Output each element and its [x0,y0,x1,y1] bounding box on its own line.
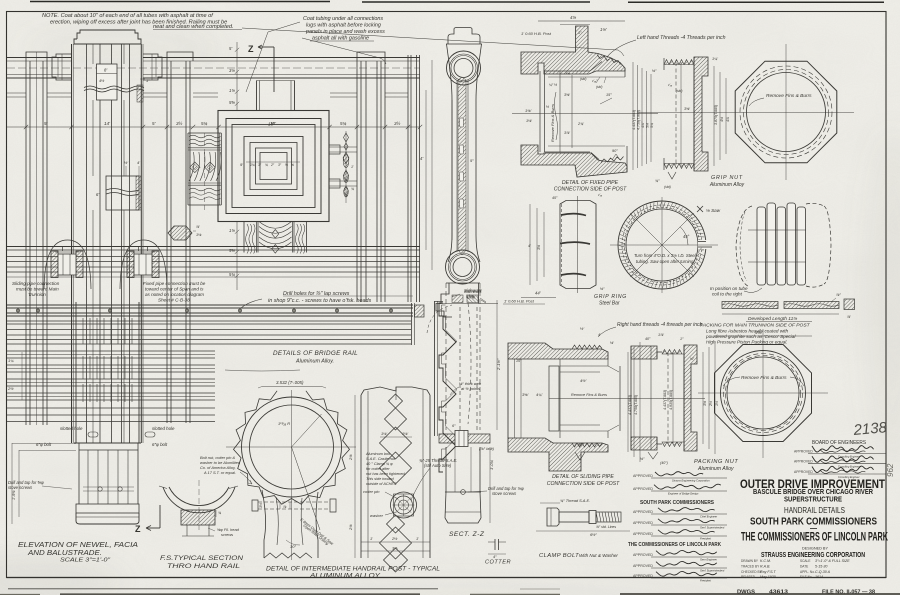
svg-text:Aluminum Alloy.: Aluminum Alloy. [295,359,334,365]
svg-text:Turn from 4″O.D. x 3⅛ I.D. Ste: Turn from 4″O.D. x 3⅛ I.D. Steel [634,253,697,258]
intermediate post: elevation right [361,395,430,558]
svg-text:toward center of Span and is: toward center of Span and is [145,287,204,292]
newel top inner box [97,64,118,100]
svg-text:⅛″: ⅛″ [652,69,657,73]
svg-text:6″φ bolt: 6″φ bolt [152,442,168,447]
svg-text:½': ½' [580,326,584,331]
svg-text:1′-9⅝: 1′-9⅝ [12,490,16,500]
deck band 3 [7,350,215,352]
svg-text:5″: 5″ [470,158,474,163]
sliding connection flange top [508,343,608,359]
svg-text:Aluminum bolt: Aluminum bolt [365,452,391,456]
svg-text:APPROVED: APPROVED [794,460,813,464]
sect Z-Z: clamp arm [439,434,490,443]
fixed connection: right dim stack [632,62,634,170]
svg-text:40 ° Clamp ¾ φ: 40 ° Clamp ¾ φ [366,462,393,466]
elevation: top rail [7,57,71,59]
aged paper stains [0,0,1,1]
svg-text:2½: 2½ [391,536,398,541]
svg-text:REVISED: REVISED [741,575,756,579]
svg-text:⅛″: ⅛″ [640,457,645,461]
svg-text:Engineer of Bridge Design: Engineer of Bridge Design [668,492,699,496]
svg-text:3½: 3½ [394,120,401,126]
svg-text:THE COMMISSIONERS OF LINCOLN P: THE COMMISSIONERS OF LINCOLN PARK [741,532,888,544]
svg-text:SCALE: SCALE [800,559,810,563]
svg-text:4.437(T.003): 4.437(T.003) [632,110,636,130]
svg-text:1¹¹⁄₁₆ R: 1¹¹⁄₁₆ R [278,421,290,426]
elevation: post 2 (x 170-190) [167,52,193,61]
svg-text:60°: 60° [578,443,584,447]
svg-text:4⅛: 4⅛ [720,117,724,122]
sliding connection inner bore [549,366,559,431]
svg-text:APPROVED: APPROVED [794,450,813,454]
svg-text:5': 5' [229,46,232,51]
newel hub left lug [52,54,72,80]
svg-text:coil to the right: coil to the right [712,292,743,297]
svg-text:Coat tubing under all connecti: Coat tubing under all connections [303,16,383,22]
svg-text:Right hand threads -4 threads: Right hand threads -4 threads per inch [617,322,703,328]
svg-text:APPROVED: APPROVED [633,553,653,557]
svg-text:4⅞″: 4⅞″ [641,121,645,128]
svg-text:lugs with asphalt before locki: lugs with asphalt before locking [306,23,381,29]
svg-text:for cotter after: for cotter after [366,467,390,471]
svg-text:3⅝: 3⅝ [392,546,398,551]
svg-text:THRO HAND RAIL: THRO HAND RAIL [167,563,240,570]
gear circle centerlines [226,446,356,448]
svg-text:With Nut & Washer: With Nut & Washer [579,553,618,558]
svg-text:must be toward Main: must be toward Main [16,287,59,292]
svg-text:1614: 1614 [815,575,823,579]
svg-text:President: President [700,579,711,583]
svg-text:High Pressure Piston Packing o: High Pressure Piston Packing or equal. [706,340,788,345]
svg-text:3″=1'-0″ & FULL SIZE: 3″=1'-0″ & FULL SIZE [815,559,850,563]
svg-text:Gen'l Superintendent: Gen'l Superintendent [700,569,725,573]
svg-text:½: ½ [546,105,549,109]
newel shaft through deck [75,302,77,443]
svg-text:powdered graphite such as ‘Ces: powdered graphite such as ‘Cesco’ Specia… [705,334,796,339]
svg-text:CLAMP BOLT: CLAMP BOLT [539,553,579,559]
svg-text:⅝: ⅝ [291,163,294,167]
svg-text:DETAIL OF FIXED PIPE: DETAIL OF FIXED PIPE [562,180,619,186]
svg-text:6': 6' [96,192,99,197]
svg-text:90°: 90° [612,149,618,153]
svg-text:GRIP NUT: GRIP NUT [711,175,743,181]
svg-text:Remove Fins & Burrs: Remove Fins & Burrs [741,375,787,381]
baluster: top cap [448,28,480,45]
svg-text:¾: ¾ [265,163,268,167]
svg-text:1⅛': 1⅛' [600,27,607,32]
svg-text:¼″ ½: ¼″ ½ [549,83,557,87]
svg-text:¾″ Thread S.A.E.: ¾″ Thread S.A.E. [560,498,590,503]
svg-text:Z: Z [248,44,254,54]
svg-text:cotter pin: cotter pin [363,489,380,494]
svg-text:in shop 9"c.c. - screws to ha: in shop 9"c.c. - screws to have o’fsk. h… [268,298,371,304]
diagonal drill note [292,447,321,530]
grip ring side view [560,201,596,289]
svg-text:1⅜: 1⅜ [229,228,235,233]
svg-text:1″: 1″ [146,78,150,83]
svg-text:15°: 15° [606,93,612,97]
svg-text:AND BALUSTRADE.: AND BALUSTRADE. [27,548,102,557]
svg-text:FILE No.: FILE No. [800,575,813,579]
svg-text:CONNECTION SIDE OF POST: CONNECTION SIDE OF POST [554,187,627,193]
svg-text:Aluminum Alloy: Aluminum Alloy [709,182,745,188]
svg-text:1¼': 1¼' [712,57,718,61]
cotter [494,539,496,550]
svg-text:3⅛: 3⅛ [229,68,235,73]
svg-text:STRAUSS ENGINEERING CORPORATIO: STRAUSS ENGINEERING CORPORATION [761,550,865,559]
svg-text:APPL. No.: APPL. No. [800,570,815,574]
sliding coupling [44,240,91,289]
svg-text:15°: 15° [516,359,522,363]
svg-text:½': ½' [124,160,128,165]
fixed connection: top threads [597,55,621,65]
sect Z-Z: post outline [445,283,447,430]
svg-text:1': 1' [370,536,373,541]
octagon nut top right [735,61,837,163]
elevation: post 3 (x 360-382) [357,52,385,61]
svg-text:2½: 2½ [709,401,713,407]
svg-text:4⅞: 4⅞ [570,15,576,20]
svg-text:SOUTH PARK COMMISSIONERS: SOUTH PARK COMMISSIONERS [750,516,877,528]
svg-text:2′-1½″: 2′-1½″ [496,358,501,371]
svg-text:stove screws: stove screws [492,491,517,496]
svg-text:SUPERSTRUCTURE: SUPERSTRUCTURE [784,497,842,504]
svg-text:(⅞″ bolt): (⅞″ bolt) [479,446,495,451]
baluster: bottom eye [446,250,480,284]
plan: vertical dim column x=237 [236,42,238,110]
developed length dim [722,313,839,315]
svg-text:APPROVED: APPROVED [794,470,813,474]
svg-text:1⅛': 1⅛' [381,431,387,436]
svg-text:3⅞': 3⅞' [564,131,570,135]
svg-text:Trunnion: Trunnion [28,292,46,297]
hex lug on post2 [168,226,192,240]
svg-text:THE COMMISSIONERS OF LINCOLN P: THE COMMISSIONERS OF LINCOLN PARK [628,542,721,548]
svg-text:⅛': ⅛' [610,341,614,345]
plan: nested squares [218,111,329,222]
svg-text:Strauss Engineering Corporatio: Strauss Engineering Corporation [672,479,710,483]
svg-text:⅝: ⅝ [285,163,288,167]
svg-text:9': 9' [240,162,243,167]
svg-text:washer: washer [370,513,384,518]
svg-text:4': 4' [420,156,423,161]
sliding connection flange bottom [508,438,608,471]
svg-text:neat and clean when completed.: neat and clean when completed. [153,24,234,30]
elevation: newel column [74,30,141,44]
svg-text:3⅝': 3⅝' [684,107,690,111]
svg-text:3.875(T.005): 3.875(T.005) [714,105,718,125]
svg-text:APPROVED: APPROVED [633,532,653,536]
svg-text:962: 962 [886,463,895,477]
diamonds column [389,394,403,408]
intermediate post: neck below circle [262,490,266,558]
svg-text:6½″: 6½″ [590,532,597,537]
svg-text:asphalt all with gasoline: asphalt all with gasoline [312,36,369,42]
svg-text:SECT. Z-Z: SECT. Z-Z [449,531,485,538]
svg-text:S.A.E. Castle nut: S.A.E. Castle nut [366,457,396,461]
svg-text:1' 0.60 H.B. Post: 1' 0.60 H.B. Post [504,299,535,304]
svg-text:(std): (std) [676,89,682,93]
saw cut label [697,206,703,212]
svg-text:Genr Engineer: Genr Engineer [700,558,717,562]
svg-text:1⅞': 1⅞' [658,333,664,337]
svg-text:5⅛: 5⅛ [646,123,650,128]
svg-text:¾″: ¾″ [655,179,660,183]
svg-text:Chief Engineer: Chief Engineer [700,515,717,519]
svg-text:4': 4' [137,160,140,165]
svg-text:1': 1' [416,536,419,541]
svg-text:Z: Z [135,524,141,534]
svg-text:outside of ACHES: outside of ACHES [366,482,397,486]
svg-text:Consulting Engineer: Consulting Engineer [838,455,860,458]
svg-text:4⅞: 4⅞ [726,117,730,122]
grip ring dims left [529,204,531,285]
svg-text:Gen'l Superintendent: Gen'l Superintendent [700,526,725,530]
svg-text:5¾: 5¾ [229,272,235,277]
45 deg arc label [680,227,688,245]
svg-text:3½: 3½ [176,120,183,126]
octagon2 top dim [714,335,812,337]
svg-text:2⅛: 2⅛ [348,524,353,531]
svg-text:(std Auto Size): (std Auto Size) [424,463,452,468]
svg-text:2½: 2½ [7,386,14,391]
svg-text:at ½ points: at ½ points [461,386,480,391]
svg-text:slotted hole: slotted hole [152,426,175,431]
svg-text:5-15-30: 5-15-30 [815,564,827,568]
svg-text:In position on tube: In position on tube [710,286,748,291]
packing coil on tube [736,206,752,287]
plan: spindle ornament right [345,131,347,203]
sect Z-Z: zigzag wall [439,303,456,472]
svg-text:⅛ Saw: ⅛ Saw [706,208,721,213]
plan: top tab [256,81,258,111]
svg-text:Remove Fins & Burrs: Remove Fins & Burrs [766,93,812,99]
svg-text:45°: 45° [683,234,690,239]
plan: right tabs [329,145,340,154]
svg-text:3⅝: 3⅝ [703,401,707,406]
svg-text:APPROVED: APPROVED [633,487,653,491]
svg-text:Ray F.S.T: Ray F.S.T [760,570,777,574]
svg-text:45°: 45° [552,196,558,200]
fixed connection: top dims [538,20,625,22]
svg-text:APPROVED: APPROVED [633,521,653,525]
svg-text:APPROVED: APPROVED [633,510,653,514]
svg-text:3⅝': 3⅝' [564,93,570,97]
svg-text:1': 1' [351,165,354,169]
svg-text:1⅜: 1⅜ [229,88,235,93]
svg-text:stove screws: stove screws [8,485,33,490]
svg-text:tubing. Saw open after turning: tubing. Saw open after turning [636,259,694,264]
svg-text:1¼: 1¼ [8,358,14,363]
svg-text:3⅝: 3⅝ [537,245,541,250]
svg-text:COTTER: COTTER [485,560,511,566]
packing nut body [631,346,657,359]
plan: bottom ornament band [243,222,245,253]
svg-text:4¼': 4¼' [536,392,543,397]
svg-text:2138: 2138 [852,419,888,439]
base screws [98,487,102,491]
svg-text:⅞': ⅞' [847,315,851,319]
svg-text:6″φ bolt: 6″φ bolt [36,442,52,447]
svg-text:4.437(T.003): 4.437(T.003) [628,395,632,415]
fixed connection: bore tube [539,71,541,152]
svg-text:Line: Line [466,294,475,299]
svg-text:4.935(T.005): 4.935(T.005) [669,390,673,410]
svg-text:APPROVED: APPROVED [633,474,653,478]
svg-text:SCALE 3"=1'-0": SCALE 3"=1'-0" [60,558,111,564]
svg-text:3½: 3½ [259,503,263,508]
svg-text:⅞″: ⅞″ [836,292,841,297]
svg-text:Developed Length 11⅞: Developed Length 11⅞ [748,316,797,322]
svg-text:nut has been tightened.: nut has been tightened. [366,472,406,476]
deck band 1 [7,304,413,306]
svg-text:May 1930: May 1930 [760,575,776,579]
svg-text:(40°): (40°) [660,461,668,465]
svg-text:¹⁄₁₆: ¹⁄₁₆ [598,193,603,197]
svg-text:BASCULE BRIDGE OVER CHICAGO: BASCULE BRIDGE OVER CHICAGO RIVER [753,489,873,496]
svg-text:Remove Fins & Burrs: Remove Fins & Burrs [571,393,607,397]
svg-text:¹⁄₁₆: ¹⁄₁₆ [668,83,673,87]
svg-text:14': 14' [104,121,110,126]
svg-text:NOTE. Coat about 10" of each: NOTE. Coat about 10" of each end of all … [42,13,214,19]
svg-text:4': 4' [598,332,601,337]
svg-text:5⅝: 5⅝ [229,100,235,105]
svg-text:18': 18' [268,122,274,127]
svg-text:3⅝': 3⅝' [522,392,529,397]
svg-text:Sidewalk: Sidewalk [464,288,482,293]
svg-text:5¾: 5¾ [201,121,208,126]
svg-text:40°: 40° [645,337,651,341]
fixed connection body: top flange hatched [521,26,625,74]
svg-text:DRAWN BY: DRAWN BY [741,559,759,563]
grip nut: body [664,60,694,65]
svg-text:5¾: 5¾ [340,121,347,126]
svg-text:1⅛: 1⅛ [196,233,202,237]
svg-text:Steel Bar: Steel Bar [599,301,620,307]
svg-text:44': 44' [535,291,541,296]
svg-text:CONNECTION SIDE OF POST: CONNECTION SIDE OF POST [547,481,620,487]
elevation: pipe lines [7,256,420,258]
svg-text:Long fibre Asbestos heavily: Long fibre Asbestos heavily coated with [706,329,789,334]
svg-text:4.750(T.005): 4.750(T.005) [637,110,641,130]
svg-text:1' 0.60 H.B. Post: 1' 0.60 H.B. Post [521,31,552,36]
svg-text:1¾: 1¾ [250,163,255,167]
baluster: base bracket [446,282,480,284]
post dims [380,436,412,438]
developed strips [722,302,778,309]
svg-text:HANDRAIL DETAILS: HANDRAIL DETAILS [784,506,845,515]
svg-text:Left hand Threads -4 Threads p: Left hand Threads -4 Threads per inch [637,35,726,41]
svg-text:5': 5' [152,121,156,126]
svg-text:(std): (std) [596,85,602,89]
svg-text:PACKING NUT: PACKING NUT [694,459,738,465]
elevation: lower rail [7,246,420,248]
baluster: top eye [447,51,481,85]
octagon nut lower right [715,345,812,442]
svg-text:This side toward: This side toward [366,477,395,481]
intermediate post: gear circle [234,391,350,504]
svg-text:5': 5' [44,121,48,126]
newel hub right lug [143,54,162,80]
svg-text:C-Q-30 A: C-Q-30 A [815,570,831,574]
elevation: right end lines [407,55,409,302]
plan: left ornament panel [187,133,189,205]
deck band 2 [7,320,411,322]
grip ring circle [618,201,706,289]
svg-text:TRACED BY: TRACED BY [741,564,760,568]
svg-text:4½: 4½ [99,79,105,83]
svg-text:DETAILS OF BRIDGE RAIL: DETAILS OF BRIDGE RAIL [273,350,358,357]
svg-text:2¾': 2¾' [577,122,584,126]
svg-text:screws: screws [221,532,233,537]
fixed connection body: bottom flange hatched [521,145,627,177]
svg-text:⅞″ std. Lines: ⅞″ std. Lines [596,525,616,529]
svg-text:Aluminum Alloy: Aluminum Alloy [697,466,734,472]
fixed coupling [120,240,167,289]
svg-text:(std): (std) [664,185,671,189]
svg-text:A 17 S.T. or equal.: A 17 S.T. or equal. [203,470,236,475]
svg-text:5⅝: 5⅝ [755,330,761,335]
svg-text:DETAIL OF SLIDING PIPE: DETAIL OF SLIDING PIPE [552,474,614,480]
svg-text:APPROVED: APPROVED [633,574,653,578]
svg-text:4.437(T.003): 4.437(T.003) [663,390,667,410]
main horizontal dim line y=127 [7,126,420,128]
fixed connection: bottom threads [601,157,624,163]
svg-text:4.750(T.005): 4.750(T.005) [634,395,638,415]
svg-text:⅛″: ⅛″ [600,287,605,291]
svg-text:¾: ¾ [351,187,354,191]
dashes below baluster [459,307,461,430]
svg-text:Sheet # C-B-38: Sheet # C-B-38 [158,298,190,303]
paper bottom edge [60,593,420,595]
packing nut dims [702,352,704,444]
svg-text:Fixed pipe connection must be: Fixed pipe connection must be [143,281,206,286]
svg-text:BOARD OF ENGINEERS: BOARD OF ENGINEERS [812,440,866,446]
center boss with bolt [391,492,417,518]
svg-text:President: President [700,537,711,541]
clamp bolt through neck [252,500,258,511]
baluster vertical dims left [431,60,433,270]
newel base [74,442,141,444]
svg-text:5¾: 5¾ [650,123,654,128]
svg-text:ALUMINUM ALLOY: ALUMINUM ALLOY [309,572,381,579]
sliding connection left tube [507,359,509,438]
svg-text:Remove Fins & Burrs: Remove Fins & Burrs [550,104,555,142]
svg-text:4': 4' [528,244,531,248]
sidewalk line [439,303,498,305]
svg-text:⅞': ⅞' [196,225,200,229]
svg-text:APPROVED: APPROVED [633,564,653,568]
svg-text:1½: 1½ [715,401,719,406]
newel middle box detail [106,176,139,210]
sliding connection right dim stack [627,352,629,452]
F.S. section: half pipe [163,487,235,513]
svg-text:as noted on location diagram: as noted on location diagram [145,292,204,297]
svg-text:F.S.TYPICAL SECTION: F.S.TYPICAL SECTION [160,555,243,562]
svg-text:1'-0¾: 1'-0¾ [489,459,494,470]
svg-text:(std): (std) [580,77,586,81]
sidewalk dashed curve [468,303,471,424]
svg-text:¹⁄₁₆: ¹⁄₁₆ [566,71,571,75]
svg-text:Sliding pipe connection: Sliding pipe connection [12,281,60,286]
clamp bolt drawing [547,508,559,526]
svg-text:4½': 4½' [580,378,587,383]
baluster: shaft [447,44,453,262]
elevation: left post [26,52,47,61]
svg-text:DATE: DATE [800,564,808,568]
sheet border frame [30,1,330,3]
